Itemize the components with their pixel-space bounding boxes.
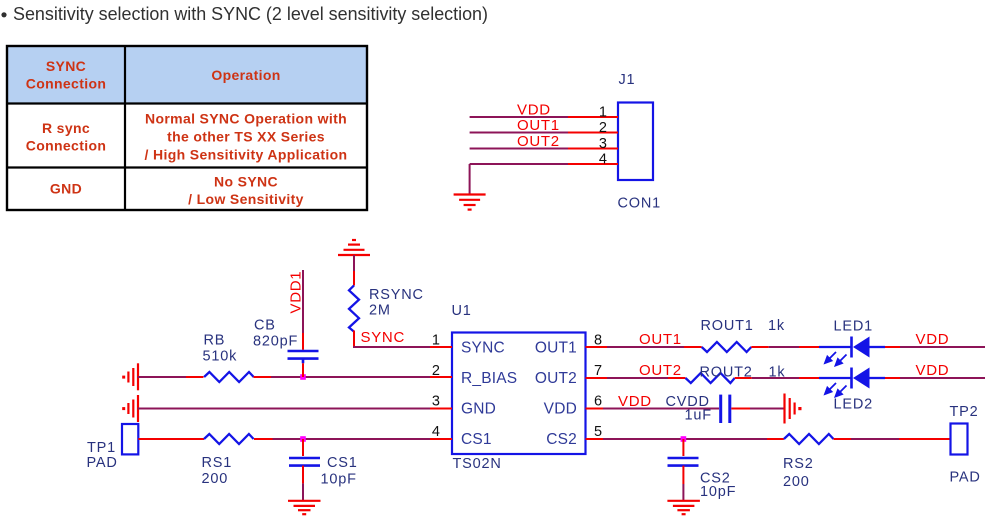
pin stub CS1 bottom (302, 466, 304, 484)
pin stub U1 pin1 (430, 346, 452, 348)
pin stub RSYNC bottom (353, 331, 355, 349)
pin stub CVDD right (731, 408, 750, 410)
wire SYNC horizontal to U1 pin1 (353, 346, 430, 348)
junction dot R_BIAS/CB (300, 374, 306, 380)
junction dot CS2 (681, 436, 687, 442)
op-amp U1 body (IC TS02N) (452, 333, 586, 455)
wire LED2 to VDD (dark) (900, 377, 985, 379)
svg-text:RS2: RS2 (783, 456, 814, 472)
LED LED2 (819, 368, 885, 397)
pin stub J1 pin2 (568, 132, 618, 134)
svg-text:OUT2: OUT2 (517, 133, 560, 150)
pin stub LED2 right (885, 377, 900, 379)
wire J1 pin4 horizontal (470, 163, 568, 165)
table header fill (7, 46, 367, 104)
svg-text:5: 5 (594, 424, 602, 440)
wire LED1 to VDD (dark) (900, 346, 985, 348)
junction dot CS1 (300, 436, 306, 442)
svg-text:Connection: Connection (26, 76, 107, 92)
ground bar symbol (left, R_BIAS row) (128, 363, 138, 390)
svg-text:OUT2: OUT2 (535, 370, 577, 387)
svg-text:OUT1: OUT1 (517, 117, 560, 134)
svg-text:No SYNC: No SYNC (214, 174, 278, 190)
wire CS1 row (dark) to U1 pin4 (273, 438, 431, 440)
wire ROUT1 to LED1 (dark) (769, 346, 799, 348)
svg-text:R_BIAS: R_BIAS (461, 370, 517, 387)
ground (CS1) (288, 501, 321, 514)
wire RSYNC top (dark) (353, 255, 355, 271)
svg-text:4: 4 (599, 152, 607, 168)
resistor RS1 (204, 434, 254, 444)
svg-text:SYNC: SYNC (46, 58, 86, 74)
pin stub RS1 right (254, 438, 273, 440)
wire J1 pin1 net VDD (470, 116, 568, 118)
svg-text:510k: 510k (203, 349, 238, 365)
capacitor CB (288, 351, 319, 363)
pin stub LED1 right (885, 346, 900, 348)
svg-text:VDD: VDD (618, 393, 652, 410)
svg-text:RB: RB (204, 333, 226, 349)
wire TP1 to RS1 (red) (138, 438, 204, 440)
svg-text:CS1: CS1 (461, 431, 492, 448)
capacitor CS1 (289, 458, 320, 466)
pin stub U1 pin7 (586, 377, 608, 379)
pin stub J1 pin1 (568, 116, 618, 118)
svg-text:R sync: R sync (42, 120, 90, 136)
svg-text:Sensitivity selection with SYN: Sensitivity selection with SYNC (2 level… (13, 3, 488, 24)
pin stub LED2 left (799, 377, 819, 379)
wire VDD1 vertical (dark) (302, 270, 304, 333)
svg-text:/ Low Sensitivity: / Low Sensitivity (188, 191, 304, 207)
table row line 2 (7, 166, 367, 168)
svg-text:1: 1 (599, 105, 607, 121)
pin stub ROUT2 left (668, 377, 686, 379)
resistor ROUT2 (686, 373, 735, 383)
svg-text:J1: J1 (619, 72, 636, 88)
svg-text:CB: CB (254, 318, 276, 334)
svg-text:PAD: PAD (950, 470, 981, 486)
svg-text:2: 2 (599, 120, 607, 136)
pin stub CS2 bottom (682, 466, 684, 484)
svg-text:RS1: RS1 (202, 455, 233, 471)
svg-text:1k: 1k (768, 318, 785, 334)
svg-text:OUT2: OUT2 (639, 362, 682, 379)
ground bar symbol dot (right of CVDD) (798, 407, 801, 410)
table column divider (124, 46, 126, 210)
svg-text:PAD: PAD (87, 455, 118, 471)
pin stub RB right (254, 376, 272, 378)
ground bar symbol dot (GND row) (122, 407, 125, 410)
pin stub U1 pin4 (430, 438, 452, 440)
svg-text:OUT1: OUT1 (639, 331, 682, 348)
pin stub ROUT2 right (735, 377, 752, 379)
svg-text:10pF: 10pF (700, 484, 736, 500)
wire J1 pin2 net OUT1 (470, 132, 568, 134)
svg-text:CON1: CON1 (618, 196, 662, 212)
ground (J1) (454, 195, 486, 210)
svg-text:CS1: CS1 (327, 455, 358, 471)
svg-text:ROUT1: ROUT1 (701, 318, 754, 334)
pin stub U1 pin8 (586, 346, 608, 348)
svg-text:VDD: VDD (916, 362, 950, 379)
connector J1 body (618, 103, 653, 181)
wire CS1 ground (dark) (302, 483, 304, 500)
svg-text:Normal SYNC Operation with: Normal SYNC Operation with (145, 111, 347, 127)
wire CVDD to ground (dark) (750, 408, 784, 410)
svg-text:TP1: TP1 (87, 440, 116, 456)
svg-text:LED1: LED1 (834, 319, 873, 335)
test point TP1 (122, 424, 138, 454)
table outer border (7, 46, 367, 210)
svg-text:SYNC: SYNC (361, 329, 405, 346)
svg-text:4: 4 (432, 424, 440, 440)
table row3 col2 text (188, 174, 304, 208)
svg-text:GND: GND (50, 181, 82, 197)
table row2 col1 text (26, 120, 107, 154)
svg-text:TP2: TP2 (950, 404, 979, 420)
capacitor CVDD (721, 395, 730, 423)
LED LED1 (819, 337, 885, 366)
svg-text:/ High Sensitivity Application: / High Sensitivity Application (145, 147, 348, 163)
capacitor CS2 (668, 458, 699, 466)
table row line 1 (7, 102, 367, 104)
svg-text:1uF: 1uF (685, 408, 712, 424)
ground bar symbol dot (R_BIAS row) (122, 376, 125, 379)
ground (above RSYNC, flipped) (338, 240, 370, 255)
wire OUT1 (dark) (607, 346, 684, 348)
svg-text:VDD: VDD (916, 331, 950, 348)
wire RS2 to TP2 (dark) (851, 438, 899, 440)
wire ROUT2 to LED2 (dark) (752, 377, 799, 379)
svg-text:200: 200 (783, 474, 810, 490)
wire CS2 ground (dark) (682, 484, 684, 500)
svg-text:Operation: Operation (211, 67, 280, 83)
svg-text:GND: GND (461, 401, 496, 418)
svg-text:6: 6 (594, 394, 602, 410)
wire R_BIAS right (dark) to U1 pin2 (271, 376, 430, 378)
resistor RSYNC (349, 285, 359, 331)
svg-text:SYNC: SYNC (461, 340, 505, 357)
svg-text:3: 3 (599, 136, 607, 152)
pin stub CB top (302, 333, 304, 350)
svg-text:VDD1: VDD1 (288, 271, 305, 314)
title bullet (1, 12, 6, 17)
svg-text:VDD: VDD (544, 401, 577, 418)
svg-text:820pF: 820pF (253, 334, 298, 350)
pin stub RB left (186, 376, 204, 378)
wire VDD row (dark) (603, 408, 719, 410)
pin stub CS2 top (682, 439, 684, 456)
pin stub J1 pin3 (568, 148, 618, 150)
wire J1 pin4 vertical to ground (469, 164, 471, 194)
resistor RS2 (784, 434, 834, 444)
wire J1 pin3 net OUT2 (470, 148, 568, 150)
wire GND row (dark) to U1 pin3 (138, 408, 430, 410)
svg-text:LED2: LED2 (834, 397, 873, 413)
pin stub U1 pin5 (586, 438, 604, 440)
pin stub RS2 right (834, 438, 852, 440)
svg-text:TS02N: TS02N (453, 456, 502, 472)
svg-text:U1: U1 (452, 303, 472, 319)
wire OUT2 (dark) (607, 377, 668, 379)
pin stub RSYNC top (353, 271, 355, 286)
ground bar symbol (left, GND row) (128, 395, 138, 422)
pin stub LED1 left (799, 346, 819, 348)
svg-text:the other TS XX Series: the other TS XX Series (167, 129, 325, 145)
svg-text:CS2: CS2 (546, 431, 577, 448)
pin stub ROUT1 right (751, 346, 768, 348)
svg-text:RSYNC: RSYNC (369, 287, 424, 303)
resistor RB (204, 372, 254, 382)
pin stub J1 pin4 (568, 163, 618, 165)
ground bar symbol (right of CVDD) (785, 394, 795, 424)
pin stub CB bottom (302, 363, 304, 377)
svg-text:200: 200 (202, 471, 229, 487)
svg-text:10pF: 10pF (321, 472, 357, 488)
svg-text:Connection: Connection (26, 138, 107, 154)
table header col1 text (26, 58, 107, 92)
test point TP2 (951, 424, 968, 455)
pin stub TP2 (899, 438, 951, 440)
pin stub CS1 top (302, 439, 304, 456)
wire CS2 row (dark) (603, 438, 767, 440)
pin stub ROUT1 left (684, 346, 702, 348)
svg-text:OUT1: OUT1 (535, 340, 577, 357)
pin stub U1 pin2 (430, 376, 452, 378)
svg-text:VDD: VDD (517, 102, 551, 119)
resistor ROUT1 (702, 342, 752, 352)
pin stub RS2 left (767, 438, 784, 440)
svg-text:2M: 2M (369, 303, 391, 319)
wire R_BIAS left (dark) (138, 376, 186, 378)
svg-text:3: 3 (432, 394, 440, 410)
svg-text:7: 7 (594, 363, 602, 379)
ground (CS2) (667, 501, 700, 514)
table row2 col2 text (145, 111, 348, 163)
pin stub U1 pin3 (430, 408, 452, 410)
pin stub U1 pin6 (586, 408, 604, 410)
